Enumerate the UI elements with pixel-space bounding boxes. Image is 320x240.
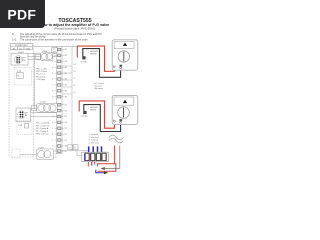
svg-text:c3: c3 — [55, 157, 57, 159]
svg-text:PVC-2 valve B: PVC-2 valve B — [36, 125, 50, 127]
svg-text:PIC-2 blue: PIC-2 blue — [36, 76, 46, 78]
svg-text:PVC-1 white: PVC-1 white — [36, 67, 48, 70]
svg-text:A1: A1 — [65, 48, 67, 51]
svg-text:5: 5 — [52, 73, 53, 75]
svg-text:A3: A3 — [65, 60, 67, 63]
order caption — [89, 134, 99, 144]
svg-text:2: 2 — [52, 55, 53, 57]
note list — [12, 33, 102, 42]
svg-text:1+2: 1+2 — [12, 38, 17, 41]
svg-text:CN101: CN101 — [18, 52, 24, 54]
wire T1 outputs — [28, 53, 57, 55]
svg-text:c2: c2 — [55, 153, 57, 155]
fuse box F2 — [17, 121, 32, 135]
transformer T2 — [16, 108, 31, 122]
svg-text:PIC-1 pump A: PIC-1 pump A — [36, 127, 49, 130]
pump P3 (solenoid pair) — [37, 147, 54, 159]
PDF badge — [0, 0, 45, 28]
svg-text:TP2 (A): TP2 (A) — [81, 115, 88, 118]
wiring note block — [36, 67, 48, 81]
machine enclosure box — [9, 44, 34, 158]
wire mid bus vertical — [71, 47, 73, 151]
svg-text:1. red lead: 1. red lead — [89, 134, 98, 136]
wire to terminal block — [62, 150, 88, 152]
svg-text:(A) range: (A) range — [95, 87, 104, 90]
red jumper below terminal block — [87, 162, 89, 167]
svg-text:PVC-1 valve A: PVC-1 valve A — [36, 122, 50, 125]
red lead loop M2 — [79, 101, 114, 128]
svg-text:B2: B2 — [65, 110, 67, 112]
svg-text:1.5KΩ: 1.5KΩ — [40, 102, 46, 104]
svg-text:B6: B6 — [65, 134, 67, 136]
svg-text:4: 4 — [52, 67, 53, 69]
fuse box F1 — [14, 68, 32, 86]
svg-text:5: 5 — [52, 128, 53, 130]
junction box lower-left — [12, 149, 20, 158]
svg-text:DC current: DC current — [95, 82, 105, 85]
svg-text:50Hz: 50Hz — [22, 60, 26, 62]
svg-text:B5: B5 — [65, 128, 67, 130]
svg-text:8: 8 — [52, 91, 53, 93]
wire top rail — [34, 46, 78, 48]
svg-text:RANGE: RANGE — [90, 52, 97, 55]
transformer T1 — [11, 52, 28, 65]
svg-text:B8: B8 — [65, 146, 67, 148]
svg-text:A6: A6 — [65, 78, 67, 81]
svg-text:3: 3 — [52, 61, 53, 63]
relay blocks K1 K2 — [68, 145, 78, 150]
svg-text:F1: F1 — [17, 76, 19, 78]
svg-text:A4: A4 — [65, 66, 67, 69]
wires T2 outputs — [31, 108, 37, 110]
blue jumper below terminal block — [96, 170, 104, 173]
svg-text:GND common: GND common — [36, 134, 49, 136]
svg-text:7: 7 — [52, 140, 53, 142]
pump P1 (solenoid pair) — [36, 51, 53, 60]
meter labels loop2 — [90, 106, 98, 111]
svg-text:PVC-2 black: PVC-2 black — [36, 71, 47, 73]
svg-text:COM gray: COM gray — [36, 79, 45, 81]
svg-text:B7: B7 — [65, 140, 67, 142]
svg-text:POWER UNIT: POWER UNIT — [15, 45, 29, 47]
test point TP1 — [81, 56, 88, 63]
interruption wavy mark — [109, 135, 123, 143]
test plug TP — [52, 48, 57, 53]
svg-text:(Printed board name PVC-5501): (Printed board name PVC-5501) — [54, 27, 95, 31]
svg-text:PDF: PDF — [7, 6, 36, 22]
svg-text:K2: K2 — [74, 147, 76, 149]
red lead loop M1 — [77, 46, 114, 71]
svg-text:A2: A2 — [65, 54, 67, 57]
legend text block — [36, 122, 50, 136]
svg-text:9: 9 — [52, 96, 53, 98]
wire bottom left — [20, 154, 37, 156]
svg-text:B1: B1 — [65, 104, 67, 106]
svg-text:B3: B3 — [65, 116, 67, 118]
svg-text:A5: A5 — [65, 72, 67, 75]
connector strip CN1 — [52, 46, 67, 153]
wire branch ticks — [63, 66, 73, 94]
svg-text:A9: A9 — [65, 95, 67, 98]
probe lead gray return — [105, 146, 120, 169]
svg-text:7: 7 — [52, 85, 53, 87]
svg-text:A7: A7 — [65, 84, 67, 87]
svg-text:The connection of the ammeter: The connection of the ammeter in the con… — [20, 38, 88, 41]
terminal block TB1 — [82, 152, 109, 161]
svg-text:B9: B9 — [65, 151, 67, 153]
meter labels loop1 — [90, 50, 98, 55]
svg-text:A8: A8 — [65, 90, 67, 93]
title text — [40, 18, 109, 31]
multimeter M1 — [112, 40, 138, 70]
svg-text:6: 6 — [52, 79, 53, 81]
svg-text:B4: B4 — [65, 122, 67, 124]
svg-text:4. blue lead: 4. blue lead — [89, 142, 99, 144]
probe lead red vertical — [114, 146, 116, 165]
pump P2 (three solenoids) — [32, 102, 58, 113]
svg-text:K1: K1 — [68, 147, 70, 149]
svg-text:TP1 (A): TP1 (A) — [81, 60, 88, 63]
svg-text:8: 8 — [52, 146, 53, 148]
svg-text:RANGE: RANGE — [90, 108, 97, 111]
colored wires to terminal block — [89, 146, 102, 152]
svg-text:1): 1) — [12, 33, 14, 36]
mid caption text — [95, 82, 105, 90]
test point TP2 — [81, 111, 88, 118]
svg-text:3. red lead: 3. red lead — [89, 140, 98, 142]
svg-text:GND: GND — [26, 48, 31, 50]
svg-text:PIC-1 red: PIC-1 red — [36, 74, 45, 76]
multimeter M2 — [112, 95, 138, 124]
black lead loop M2 — [84, 105, 121, 132]
wire left bus — [33, 54, 35, 109]
black lead loop M1 — [83, 49, 121, 78]
svg-text:6: 6 — [52, 134, 53, 136]
svg-text:c1: c1 — [55, 150, 57, 152]
title block table — [11, 44, 33, 50]
svg-text:2. blue lead: 2. blue lead — [89, 137, 99, 139]
svg-text:4: 4 — [52, 122, 53, 124]
